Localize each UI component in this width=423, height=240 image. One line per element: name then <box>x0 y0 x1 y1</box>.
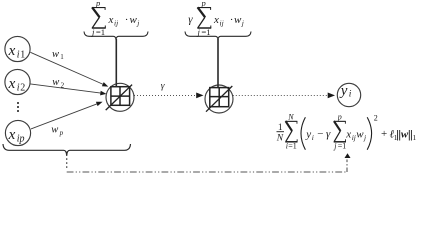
svg-text:j: j <box>91 27 95 37</box>
svg-text:−: − <box>317 128 323 140</box>
svg-text:ip: ip <box>17 133 25 144</box>
svg-text:1: 1 <box>394 133 398 142</box>
svg-text:γ: γ <box>161 82 165 92</box>
svg-text:x: x <box>8 127 16 143</box>
svg-text:ij: ij <box>352 133 356 142</box>
underbrace 2 <box>185 32 251 40</box>
node y_i <box>337 83 360 107</box>
svg-text:ij: ij <box>114 19 118 28</box>
svg-text:j: j <box>136 19 139 28</box>
svg-text:j: j <box>197 27 201 37</box>
svg-text:γ: γ <box>326 128 331 140</box>
dotted wire U1 to U2 with gamma <box>134 93 204 99</box>
svg-text:2: 2 <box>61 82 65 90</box>
inner sum <box>334 121 346 142</box>
svg-text:1: 1 <box>20 49 25 60</box>
svg-text:N: N <box>276 134 284 144</box>
svg-text:p: p <box>59 129 64 137</box>
svg-text:x: x <box>213 14 219 26</box>
svg-text:i: i <box>312 133 314 142</box>
dotted wire U2 to y_i <box>233 93 335 99</box>
svg-text:w: w <box>401 129 409 141</box>
wire wp arrow <box>31 102 103 129</box>
svg-text:2: 2 <box>20 82 25 93</box>
svg-text:1: 1 <box>413 133 417 142</box>
svg-text:y: y <box>305 129 311 141</box>
svg-text:j: j <box>241 19 244 28</box>
svg-text:p: p <box>95 0 100 8</box>
sum node U2 <box>205 85 233 113</box>
svg-text:x: x <box>8 43 16 59</box>
svg-text:x: x <box>8 76 16 92</box>
formula 1: sum_j x_ij . w_j <box>91 0 139 37</box>
svg-text:i: i <box>349 89 352 99</box>
svg-text:w: w <box>52 77 59 88</box>
wire w1 arrow <box>30 52 108 86</box>
open paren <box>301 117 305 149</box>
svg-text:·: · <box>230 14 234 26</box>
label w1 <box>52 49 64 61</box>
svg-text:ij: ij <box>220 19 224 28</box>
underbrace 3 (bottom) <box>3 144 131 156</box>
label w2 <box>52 77 64 89</box>
svg-text:p: p <box>201 0 206 8</box>
svg-text:2: 2 <box>374 114 378 123</box>
svg-text:j: j <box>363 133 366 142</box>
vertical dots <box>17 102 19 112</box>
svg-text:w: w <box>234 14 242 26</box>
svg-text:y: y <box>339 83 348 99</box>
wire brace1 to U1 <box>115 39 117 86</box>
loss formula <box>276 112 417 150</box>
underbrace 1 <box>84 32 148 40</box>
svg-text:x: x <box>345 129 351 141</box>
svg-text:w: w <box>51 125 58 136</box>
svg-text:=1: =1 <box>96 27 105 37</box>
norm bars left <box>397 130 399 141</box>
svg-text:=1: =1 <box>338 141 347 150</box>
sum over i <box>285 121 297 142</box>
sum node U1 <box>106 83 134 111</box>
wire w2 arrow <box>30 84 106 96</box>
svg-text:1: 1 <box>60 53 64 61</box>
svg-text:·: · <box>125 14 129 26</box>
dotted feedback wire down <box>66 158 68 170</box>
node x_ip <box>5 120 30 145</box>
svg-text:=1: =1 <box>201 27 210 37</box>
svg-text:w: w <box>52 49 59 60</box>
dash-dot feedback wire horizontal <box>67 171 347 173</box>
svg-text:x: x <box>108 14 114 26</box>
norm bars right <box>408 130 410 141</box>
svg-text:+: + <box>381 128 387 140</box>
dash-dot feedback wire up <box>346 160 348 173</box>
node x_i1 <box>5 36 30 61</box>
wire brace2 to U2 <box>217 39 219 87</box>
svg-text:p: p <box>337 112 342 121</box>
svg-text:γ: γ <box>188 13 193 25</box>
svg-text:N: N <box>287 113 294 122</box>
feedback arrowhead <box>345 153 351 158</box>
close paren <box>367 117 371 149</box>
label wp <box>51 125 63 137</box>
formula 2: gamma sum_j x_ij . w_j <box>188 0 244 37</box>
svg-text:=1: =1 <box>288 141 297 150</box>
node x_i2 <box>5 69 30 94</box>
svg-text:w: w <box>130 14 138 26</box>
